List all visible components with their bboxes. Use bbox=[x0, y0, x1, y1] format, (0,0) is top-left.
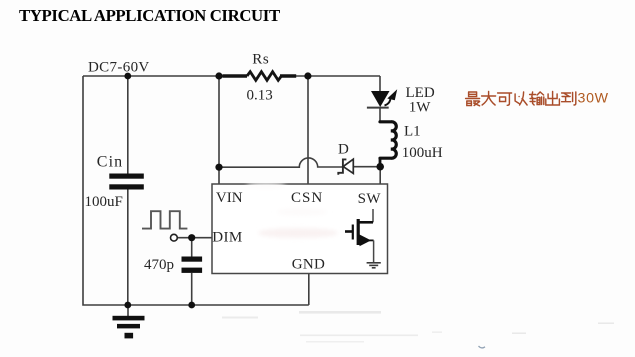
svg-text:SW: SW bbox=[358, 191, 382, 207]
svg-text:30W: 30W bbox=[578, 91, 609, 107]
svg-text:1W: 1W bbox=[409, 100, 432, 116]
svg-text:Rs: Rs bbox=[252, 52, 269, 68]
svg-text:0.13: 0.13 bbox=[247, 88, 273, 104]
svg-text:Cin: Cin bbox=[97, 153, 123, 170]
svg-text:DC7-60V: DC7-60V bbox=[88, 60, 150, 76]
svg-text:D: D bbox=[338, 142, 349, 158]
svg-text:TYPICAL APPLICATION CIRCUIT: TYPICAL APPLICATION CIRCUIT bbox=[19, 6, 280, 25]
svg-text:GND: GND bbox=[292, 257, 325, 273]
svg-text:470p: 470p bbox=[144, 257, 174, 273]
svg-text:DIM: DIM bbox=[212, 230, 242, 246]
svg-text:L1: L1 bbox=[404, 124, 421, 140]
svg-text:100uF: 100uF bbox=[85, 194, 123, 210]
svg-text:CSN: CSN bbox=[291, 190, 323, 206]
svg-text:VIN: VIN bbox=[216, 190, 243, 206]
svg-text:100uH: 100uH bbox=[402, 145, 443, 161]
